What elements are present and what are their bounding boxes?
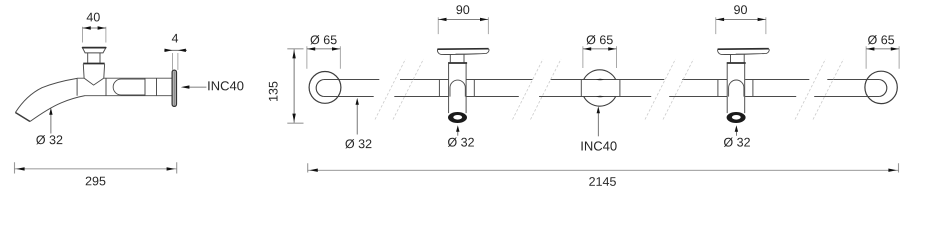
pipe bottom line bbox=[84, 95, 172, 97]
label 135 vertical bbox=[269, 82, 278, 101]
dim Ø65 left bbox=[307, 46, 340, 68]
label 295 bbox=[86, 177, 106, 186]
valve body sides bbox=[83, 64, 104, 78]
label Ø 32 spout2 bbox=[724, 138, 750, 147]
valve neck bbox=[88, 53, 100, 63]
bar bottom line segments bbox=[324, 96, 879, 98]
label Ø 32 spout bbox=[36, 135, 62, 144]
leader Ø32 spout2 bbox=[735, 132, 737, 136]
dim Ø65 right bbox=[866, 46, 899, 68]
label 90 spout1 plate bbox=[456, 5, 469, 14]
right flange circle bbox=[865, 71, 897, 103]
spout curved body bbox=[15, 78, 77, 112]
valve cap bbox=[82, 48, 106, 53]
label INC40 wall fitting bbox=[208, 81, 243, 90]
spout 2 bbox=[718, 49, 770, 123]
middle connector bbox=[584, 70, 616, 80]
dim 90 spout2 bbox=[716, 17, 766, 34]
leader Ø32 spout1 bbox=[457, 132, 459, 136]
pipe joint verticals bbox=[145, 78, 157, 96]
left dims bbox=[15, 26, 207, 173]
leader INC40 middle bbox=[597, 113, 599, 136]
leader Ø32 left bbox=[50, 115, 52, 134]
label Ø 65 middle flange bbox=[587, 35, 613, 44]
dim 90 spout1 bbox=[438, 17, 488, 34]
dim 295 bbox=[15, 162, 177, 173]
label INC40 middle fitting bbox=[581, 141, 616, 150]
label 90 spout2 plate bbox=[734, 5, 747, 14]
T-sleeve verticals bbox=[77, 78, 106, 96]
spout mouth cut bbox=[15, 113, 30, 122]
dim 135 vertical bbox=[287, 49, 303, 123]
label Ø 65 right flange bbox=[868, 35, 894, 44]
inner capsule rounded end bbox=[113, 79, 145, 95]
label 40 bbox=[87, 13, 100, 22]
dim 2145 bbox=[308, 163, 899, 172]
dim 4 bbox=[173, 53, 178, 70]
label 4 bbox=[172, 34, 178, 43]
wall flange bbox=[172, 70, 176, 106]
left flange circle bbox=[309, 72, 341, 104]
valve body top thick edge bbox=[83, 63, 105, 65]
pipe top line bbox=[77, 77, 172, 79]
dim 40 bbox=[83, 27, 106, 43]
label Ø 32 spout1 bbox=[448, 138, 474, 147]
label Ø 65 left flange bbox=[310, 35, 336, 44]
valve V point bbox=[84, 78, 104, 85]
bar top line segments bbox=[324, 79, 879, 81]
label 2145 overall bbox=[589, 177, 616, 186]
leader INC40 left bbox=[184, 86, 206, 88]
spout 1 bbox=[437, 49, 489, 123]
right dims bbox=[287, 17, 899, 172]
break marks bbox=[375, 59, 844, 120]
leader Ø32 bar bbox=[356, 105, 358, 135]
dim Ø65 middle bbox=[583, 46, 617, 68]
label Ø 32 bar bbox=[345, 139, 371, 148]
